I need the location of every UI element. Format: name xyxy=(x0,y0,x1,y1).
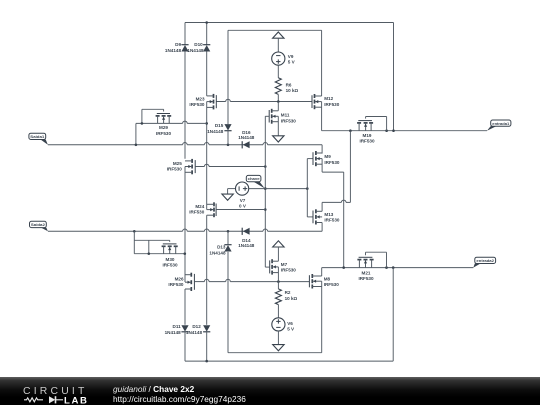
wire gate rail top xyxy=(216,101,225,103)
svg-text:IRF530: IRF530 xyxy=(162,262,178,267)
wire M30 gate loop xyxy=(169,240,171,242)
svg-text:entrada2: entrada2 xyxy=(476,258,494,263)
transistor M8 xyxy=(308,275,310,287)
svg-text:IRF530: IRF530 xyxy=(324,218,340,223)
ground V7 xyxy=(222,194,233,200)
voltage source V7 xyxy=(236,182,249,195)
wire M11 drain xyxy=(277,102,279,111)
wire M12 drain vertical xyxy=(321,30,323,96)
junction xyxy=(141,122,144,125)
diode D10 xyxy=(203,44,210,46)
wire entrada1 rail xyxy=(322,130,487,132)
transistor M19 xyxy=(358,120,372,122)
svg-text:5 V: 5 V xyxy=(287,326,295,331)
junction xyxy=(306,187,309,190)
transistor M26 xyxy=(193,274,195,290)
junction xyxy=(184,252,187,255)
junction xyxy=(148,252,151,255)
junction xyxy=(205,122,208,125)
wire outer bottom rail xyxy=(185,360,393,362)
resistor R6 xyxy=(275,78,281,95)
svg-text:entrada1: entrada1 xyxy=(492,121,510,126)
wire M11 source to ground xyxy=(277,116,279,135)
svg-text:IRF530: IRF530 xyxy=(156,131,172,136)
svg-text:IRF530: IRF530 xyxy=(324,282,340,287)
net flag entrada1 xyxy=(487,126,497,131)
svg-text:D11: D11 xyxy=(173,324,182,329)
logo diode symbol xyxy=(49,396,55,403)
svg-text:V9: V9 xyxy=(288,54,294,59)
wire M12 source down xyxy=(321,102,323,131)
wire M25 source down xyxy=(184,167,186,283)
wire chave vertical xyxy=(264,116,266,267)
transistor M11 xyxy=(268,110,270,123)
svg-text:IRF530: IRF530 xyxy=(324,102,340,107)
junction xyxy=(349,129,352,132)
svg-text:IRF530: IRF530 xyxy=(189,209,205,214)
transistor M7 xyxy=(269,260,271,273)
wire M13 drain path xyxy=(321,202,323,211)
svg-text:D9: D9 xyxy=(175,42,181,47)
wire M13 gate stub xyxy=(307,216,313,218)
net flag Saida1 xyxy=(41,140,48,145)
wire M13 drain vertical xyxy=(349,131,351,203)
svg-text:1N4148: 1N4148 xyxy=(165,330,182,335)
junction xyxy=(227,144,230,147)
wire outer top rail xyxy=(185,22,394,24)
wire M7 gate stub xyxy=(265,266,269,268)
svg-text:10 kΩ: 10 kΩ xyxy=(285,296,298,301)
wire D10 anode down to M23 drain xyxy=(206,52,208,96)
svg-text:M11: M11 xyxy=(281,113,290,118)
wire M9 source path xyxy=(321,159,323,173)
wire V6 bottom xyxy=(277,331,279,345)
svg-text:IRF530: IRF530 xyxy=(281,267,297,272)
svg-text:0 V: 0 V xyxy=(239,203,247,208)
svg-text:IRF530: IRF530 xyxy=(358,276,374,281)
wire M29 bottom line xyxy=(136,122,183,124)
wire M29 to saida1 xyxy=(135,123,137,144)
wire D10 cathode stub xyxy=(206,23,208,45)
transistor M23 xyxy=(215,95,217,108)
svg-text:1N4148: 1N4148 xyxy=(165,48,182,53)
wire D11 cathode down xyxy=(184,332,186,361)
svg-text:M25: M25 xyxy=(173,161,182,166)
wire D15 cathode xyxy=(227,131,229,145)
wire M21 gate loop xyxy=(365,252,367,255)
wire V9 top xyxy=(277,38,279,52)
svg-text:M9: M9 xyxy=(324,154,331,159)
junction xyxy=(385,129,388,132)
diode D11 xyxy=(181,325,188,331)
junction xyxy=(264,165,267,168)
voltage source V6 xyxy=(272,318,285,331)
wire M9 M13 gate vertical xyxy=(306,159,308,217)
wire M26 drain down xyxy=(184,289,186,325)
transistor M29 xyxy=(157,113,170,115)
wire outer bottom right vertical xyxy=(392,268,394,362)
svg-text:M19: M19 xyxy=(363,133,372,138)
junction xyxy=(342,266,345,269)
voltage source V9 xyxy=(272,52,285,65)
wire D12 cathode down xyxy=(206,332,208,361)
transistor M12 xyxy=(311,95,313,108)
svg-text:V6: V6 xyxy=(287,321,293,326)
svg-text:IRF530: IRF530 xyxy=(189,102,205,107)
transistor M24 xyxy=(215,204,217,217)
wire M24 gate wire xyxy=(216,209,265,211)
flipped ground V9 xyxy=(273,32,284,38)
wire R2 to V6 xyxy=(277,305,279,318)
wire M9 drain up xyxy=(321,145,323,154)
net flag entrada2 xyxy=(473,264,480,268)
svg-text:M30: M30 xyxy=(166,257,175,262)
wire M9 source vertical xyxy=(343,172,345,268)
svg-text:M23: M23 xyxy=(196,96,205,101)
CircuitLab logo xyxy=(23,383,95,405)
svg-text:D10: D10 xyxy=(194,42,203,47)
net flag Saida2 xyxy=(41,228,48,232)
svg-text:IRF530: IRF530 xyxy=(168,282,184,287)
junction xyxy=(392,266,395,269)
flipped ground M7 xyxy=(273,241,284,247)
junction xyxy=(227,230,230,233)
wire M23 source down xyxy=(206,102,208,210)
transistor M13 xyxy=(312,211,314,224)
svg-text:D15: D15 xyxy=(215,123,224,128)
wire M30 bottom line xyxy=(134,253,185,255)
wire inner top rail xyxy=(228,29,322,31)
wire saida1 rail xyxy=(48,144,183,146)
ground M11 xyxy=(273,136,284,142)
svg-text:Saida1: Saida1 xyxy=(30,134,45,139)
svg-text:1N4148: 1N4148 xyxy=(209,250,226,255)
svg-text:D12: D12 xyxy=(192,324,201,329)
wire inner bottom rail xyxy=(228,352,322,354)
ground V6 xyxy=(273,345,284,351)
logo resistor symbol xyxy=(24,397,43,401)
wire D13 cathode up xyxy=(227,231,229,244)
transistor M25 xyxy=(194,160,196,173)
wire M19 gate loop xyxy=(365,117,367,119)
wire D9 anode down to M25 drain xyxy=(184,52,186,159)
junction xyxy=(264,208,267,211)
diode D9 xyxy=(181,44,188,46)
wire D15 anode vertical xyxy=(227,30,229,124)
wire D9 cathode stub xyxy=(184,23,186,45)
svg-text:1N4148: 1N4148 xyxy=(238,243,255,248)
wire entrada2 rail xyxy=(322,267,474,269)
wire gate rail bottom xyxy=(194,281,204,283)
wire chave to gates xyxy=(265,188,307,190)
junction xyxy=(264,187,267,190)
wire M7 drain up xyxy=(277,247,279,261)
transistor M9 xyxy=(312,152,314,165)
wire M8 drain up xyxy=(321,268,323,276)
svg-text:M21: M21 xyxy=(362,271,371,276)
svg-text:M29: M29 xyxy=(159,125,168,130)
svg-text:1N4148: 1N4148 xyxy=(238,135,255,140)
wire M30 to saida2 xyxy=(133,231,135,253)
junction xyxy=(205,360,208,363)
junction xyxy=(205,21,208,24)
wire M11 gate stub xyxy=(265,115,269,117)
svg-text:chave: chave xyxy=(248,176,261,181)
transistor M30 xyxy=(163,243,177,245)
junction xyxy=(392,129,395,132)
svg-text:R6: R6 xyxy=(286,82,292,87)
svg-text:M24: M24 xyxy=(195,204,204,209)
footer bar xyxy=(0,377,540,405)
junction xyxy=(277,280,280,283)
wire D13 anode down xyxy=(227,252,229,353)
diode D16 xyxy=(241,141,243,148)
svg-text:5 V: 5 V xyxy=(288,59,296,64)
wire V9 to R6 xyxy=(277,65,279,78)
wire R2 top xyxy=(277,282,279,289)
diode D14 xyxy=(241,228,243,235)
svg-text:D13: D13 xyxy=(217,244,226,249)
junction xyxy=(277,100,280,103)
wire M13 source down xyxy=(321,223,323,232)
svg-text:LAB: LAB xyxy=(64,395,89,405)
wire M9 gate stub xyxy=(307,158,313,160)
wire saida2 rail xyxy=(48,230,183,232)
svg-text:M13: M13 xyxy=(324,212,333,217)
resistor R2 xyxy=(275,289,281,305)
diode D13 xyxy=(224,244,231,246)
wire V7 minus xyxy=(228,188,236,190)
svg-text:IRF530: IRF530 xyxy=(167,167,183,172)
diode D15 xyxy=(224,124,231,130)
svg-text:IRF530: IRF530 xyxy=(359,139,375,144)
junction xyxy=(135,144,138,147)
svg-text:M12: M12 xyxy=(324,96,333,101)
svg-text:M8: M8 xyxy=(324,277,331,282)
svg-text:M7: M7 xyxy=(281,262,288,267)
junction xyxy=(133,230,136,233)
junction xyxy=(385,266,388,269)
svg-text:10 kΩ: 10 kΩ xyxy=(286,88,299,93)
wire M29 gate loop xyxy=(163,109,165,111)
net flag chave xyxy=(253,182,264,189)
wire M25 gate wire xyxy=(195,166,204,168)
wire R6 bottom xyxy=(277,94,279,101)
svg-text:M26: M26 xyxy=(175,277,184,282)
svg-text:R2: R2 xyxy=(285,290,291,295)
diode D12 xyxy=(203,325,210,331)
svg-text:IRF530: IRF530 xyxy=(281,118,297,123)
svg-text:1N4148: 1N4148 xyxy=(207,129,224,134)
svg-text:1N4148: 1N4148 xyxy=(186,330,203,335)
wire M24 source down xyxy=(206,215,208,325)
svg-text:1N4148: 1N4148 xyxy=(187,48,204,53)
wire V7 plus xyxy=(249,188,265,190)
transistor M21 xyxy=(359,256,373,258)
wire M8 source down xyxy=(321,281,323,353)
svg-text:V7: V7 xyxy=(240,198,246,203)
svg-text:IRF530: IRF530 xyxy=(324,160,340,165)
wire outer right vertical xyxy=(393,23,395,131)
svg-text:Saida2: Saida2 xyxy=(31,222,46,227)
wire M7 source down xyxy=(277,267,279,282)
